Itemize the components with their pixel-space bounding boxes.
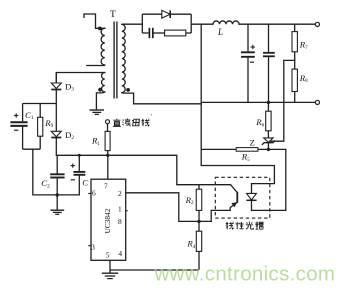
label + (C-out1)	[251, 45, 255, 49]
resistor R7	[292, 24, 297, 69]
phototransistor Q	[230, 185, 237, 211]
wire aux winding top to D3	[56, 73, 105, 84]
pin 7 label	[104, 181, 108, 190]
label D3	[65, 81, 74, 92]
capacitor C-out1 electrolytic	[241, 24, 255, 102]
label R2	[185, 195, 194, 206]
label optocoupler	[226, 222, 263, 230]
label R9	[44, 118, 53, 129]
transformer T aux winding	[102, 73, 105, 93]
wire C1 R9 top	[23, 103, 57, 105]
transformer T core	[114, 22, 117, 99]
resistor R2	[196, 185, 202, 222]
wire snubber output	[191, 23, 213, 25]
label - (C-out1)	[250, 61, 254, 63]
label + (C1)	[14, 113, 18, 117]
svg-text:3: 3	[91, 242, 95, 251]
svg-text:8: 8	[118, 217, 122, 226]
resistor R5	[201, 148, 286, 152]
label - (C)	[71, 179, 75, 181]
resistor R8	[292, 69, 297, 102]
ground (pin5)	[102, 270, 118, 279]
terminal output-	[315, 100, 319, 104]
wire left drop to C2 node	[33, 149, 80, 195]
wire snubber top branch left	[142, 13, 162, 15]
resistor (snubber)	[165, 30, 192, 36]
node R2 R4 junction	[197, 220, 200, 223]
resistor R4	[196, 221, 201, 270]
wire R4 bottom to pin5	[110, 269, 199, 271]
pin 1 tick	[126, 210, 128, 212]
terminal output+	[315, 22, 319, 26]
wire pin2 feedback (B)	[126, 193, 212, 222]
wire pin7 from node	[107, 155, 109, 179]
wire primary top stub	[84, 14, 105, 28]
svg-text:6: 6	[92, 189, 96, 198]
zener Z	[262, 138, 274, 150]
svg-text:5: 5	[106, 250, 110, 259]
wire secondary top to snubber	[122, 23, 143, 25]
wire R5 right to LED cathode	[252, 149, 286, 210]
pin 2 label	[118, 189, 122, 198]
LED (optocoupler)	[246, 193, 256, 210]
svg-text:Z: Z	[250, 137, 255, 147]
wire pin5 down	[109, 260, 111, 270]
label UC3842	[103, 208, 112, 233]
diode D3	[51, 73, 61, 104]
label R5	[241, 152, 250, 163]
svg-text:C: C	[82, 177, 88, 187]
label C2	[41, 178, 50, 189]
pin 1 label	[118, 205, 122, 214]
wire top output rail	[239, 23, 315, 25]
label + (C)	[71, 163, 75, 167]
capacitor (snubber)	[142, 28, 164, 38]
node R1 bottom	[106, 154, 109, 157]
node C2 bottom	[56, 193, 59, 196]
transformer T secondary winding	[122, 24, 125, 92]
label DC bus 直流母线	[113, 119, 150, 127]
wire secondary bottom to lower rail	[122, 93, 201, 104]
pin 3 tick	[88, 245, 91, 247]
pin 4 label	[118, 249, 122, 258]
diode D2	[51, 131, 61, 155]
pin 5 label	[106, 250, 110, 259]
resistor R6	[266, 102, 271, 137]
resistor R1	[105, 124, 110, 156]
label Z	[250, 137, 255, 147]
wire bottom output rail	[201, 101, 315, 103]
ground (aux winding)	[90, 110, 105, 114]
inductor L	[213, 21, 239, 24]
label C1	[25, 110, 34, 121]
svg-text:T: T	[110, 9, 116, 20]
label R4	[186, 239, 195, 250]
label - (C1)	[14, 129, 18, 131]
ground (C2)	[50, 195, 64, 214]
resistor R9	[38, 104, 43, 150]
watermark	[154, 262, 336, 285]
capacitor C1	[10, 104, 27, 150]
wire snubber top branch right	[170, 13, 191, 15]
terminal DC bus	[106, 120, 110, 124]
wire primary bottom stub	[86, 65, 105, 67]
phototransistor collector wire	[177, 184, 231, 186]
capacitor C	[74, 154, 86, 195]
pin 6 tick	[88, 193, 91, 195]
svg-text:1: 1	[118, 205, 122, 214]
pin 8 label	[118, 217, 122, 226]
wire rectifier node down	[200, 24, 202, 165]
pin 3 label	[91, 242, 95, 251]
svg-text:2: 2	[118, 189, 122, 198]
wire C1 R9 bottom	[23, 148, 41, 150]
wire LED anode feed	[201, 166, 274, 194]
op-amp U1 UC3842 box	[91, 179, 126, 260]
label R7	[299, 40, 308, 51]
label R6	[255, 117, 264, 128]
stray mark	[151, 114, 152, 116]
diode D (snubber)	[162, 10, 170, 18]
wire divider tap	[270, 60, 294, 141]
wire snubber right edge	[190, 14, 192, 33]
node zener to R5	[267, 148, 270, 151]
node R6 top	[267, 101, 270, 104]
wire D3 to D2	[55, 104, 57, 132]
transformer T primary winding	[101, 28, 105, 65]
svg-text:UC3842: UC3842	[103, 208, 112, 233]
label D2	[65, 130, 74, 141]
svg-text:7: 7	[104, 181, 108, 190]
wire snubber left edge	[141, 14, 143, 33]
transformer secondary winding dot	[126, 88, 130, 92]
transformer T label	[110, 9, 116, 20]
capacitor C-out2	[263, 24, 275, 102]
label R1	[91, 135, 100, 146]
pin 6 label	[92, 189, 96, 198]
capacitor C2	[50, 155, 64, 195]
transformer primary winding dot	[98, 27, 102, 31]
svg-text:4: 4	[118, 249, 122, 258]
optocoupler dashed box	[215, 177, 269, 218]
transformer aux winding dot	[98, 88, 102, 92]
svg-text:www.cntronics.com: www.cntronics.com	[154, 262, 336, 285]
wire aux winding bottom to ground	[96, 92, 104, 110]
inductor L label	[217, 27, 223, 37]
wire Vcc rail (A)	[56, 155, 177, 184]
phototransistor emitter wire	[211, 210, 230, 221]
label C	[82, 177, 88, 187]
svg-text:L: L	[217, 27, 223, 37]
label R8	[299, 73, 308, 84]
